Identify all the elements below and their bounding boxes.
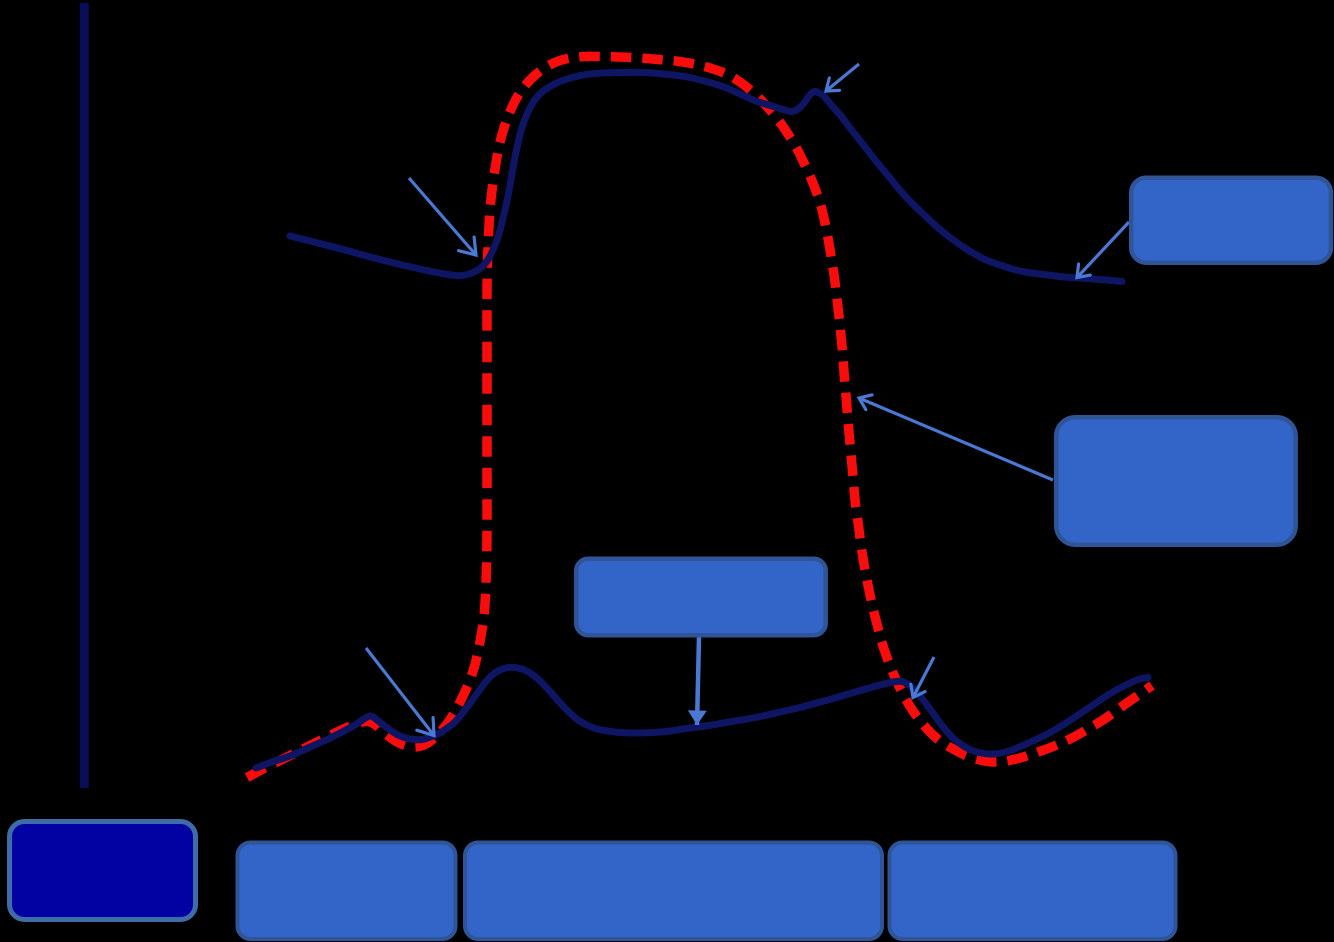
label box C (centre) (576, 559, 826, 636)
arrow 4 (from right middle label box to red dashed curve) (859, 398, 1053, 480)
y-axis (80, 3, 89, 788)
arrow 2 (to notch on upper curve) (826, 64, 859, 91)
arrow 1 (to upper curve dip) (409, 178, 476, 255)
legend box 3 (465, 843, 882, 940)
red dashed curve (stimulus trace) (247, 56, 1152, 777)
label box B (middle right) (1056, 417, 1296, 545)
arrow 6 (to lower curve first dip) (366, 648, 434, 736)
arrow 5 (from centre label box down to lower curve) (697, 637, 699, 725)
upper navy response curve (290, 72, 1122, 281)
lower navy response curve (256, 667, 1148, 768)
legend box 1 (navy, bottom left) (10, 822, 196, 920)
arrow 7 (to lower curve second dip) (913, 657, 934, 698)
legend box 2 (238, 843, 456, 940)
legend box 4 (890, 843, 1176, 940)
arrow 3 (from right upper label box to curve end) (1077, 222, 1129, 278)
label box A (upper right) (1131, 178, 1331, 263)
